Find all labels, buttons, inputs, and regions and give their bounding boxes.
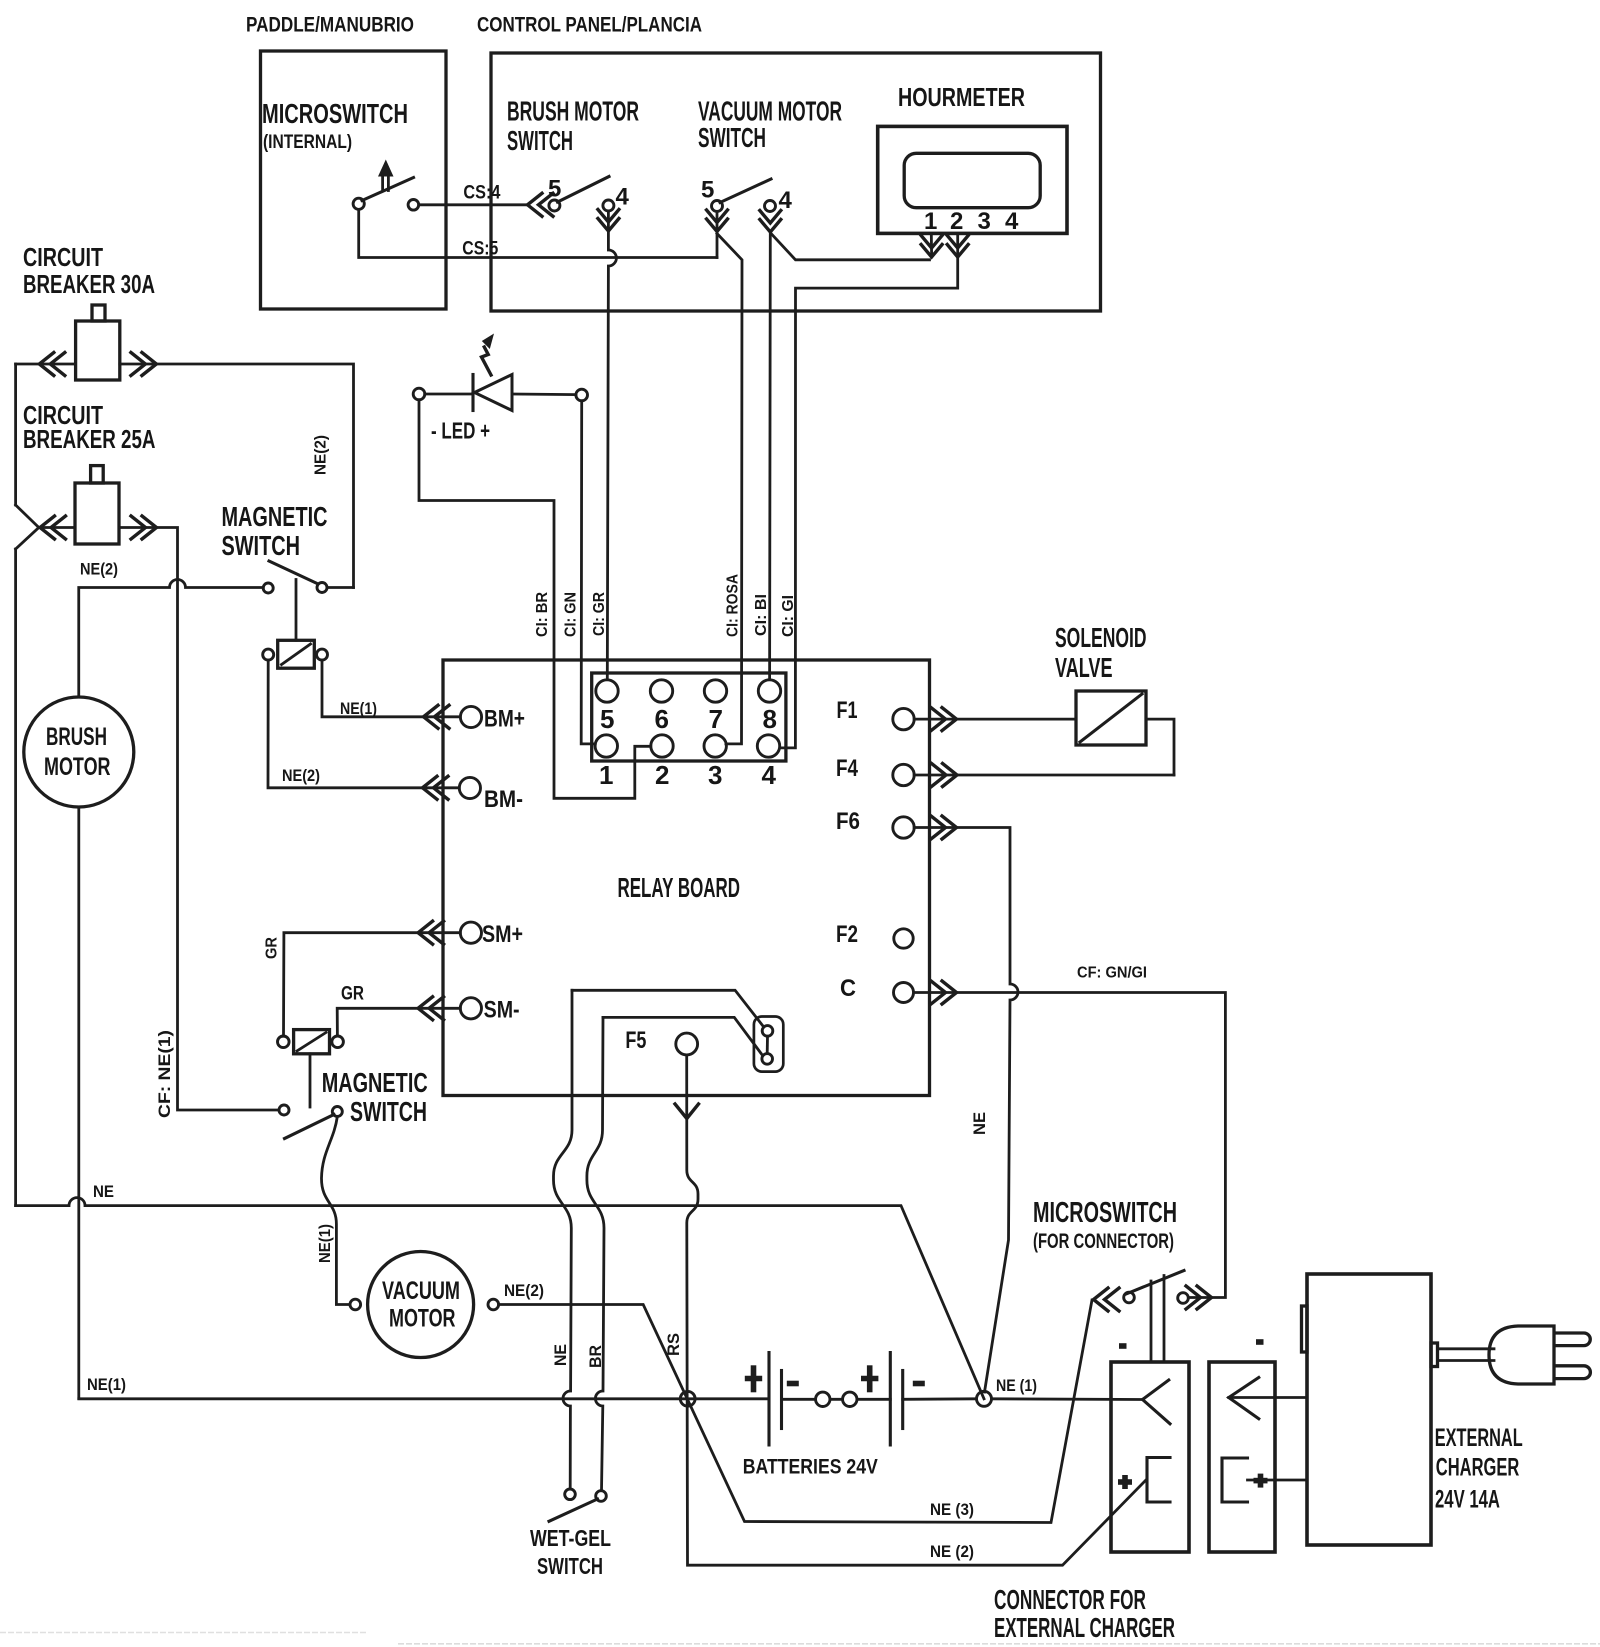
chevron on BM- wire bbox=[423, 776, 449, 799]
svg-text:VACUUM: VACUUM bbox=[382, 1277, 460, 1305]
svg-text:SWITCH: SWITCH bbox=[698, 122, 766, 153]
svg-text:BM-: BM- bbox=[484, 786, 523, 813]
connector P1 plus bracket bbox=[1118, 1458, 1170, 1503]
terminal F5 bbox=[625, 1027, 697, 1055]
svg-text:BRUSH MOTOR: BRUSH MOTOR bbox=[507, 96, 639, 127]
wire CS:5 (microswitch pivot to vacuum switch) bbox=[359, 209, 717, 257]
hourmeter pin 2 stub wire (to CI:GI) bbox=[780, 233, 958, 748]
wire BR (relay to wet-gel switch) bbox=[587, 1017, 604, 1490]
brush motor M1 bbox=[24, 697, 134, 807]
svg-text:NE(2): NE(2) bbox=[313, 435, 330, 475]
arrow on F5 wire bbox=[675, 1104, 699, 1119]
svg-text:MICROSWITCH: MICROSWITCH bbox=[262, 98, 408, 129]
microswitch S1 internal: actuator arrow bbox=[378, 160, 394, 191]
hourmeter display window bbox=[904, 153, 1040, 207]
charger cord outlet bbox=[1431, 1343, 1438, 1367]
label CI: GI bbox=[780, 595, 797, 637]
hourmeter box bbox=[878, 126, 1067, 233]
battery B2 positive plate bbox=[889, 1353, 892, 1446]
label NE(1) bottom left bbox=[87, 1376, 126, 1394]
svg-text:GR: GR bbox=[341, 984, 364, 1005]
svg-text:4: 4 bbox=[616, 184, 630, 211]
svg-text:SWITCH: SWITCH bbox=[537, 1553, 603, 1579]
svg-text:NE: NE bbox=[552, 1344, 570, 1366]
svg-text:MOTOR: MOTOR bbox=[44, 753, 111, 781]
label CIRCUIT BREAKER 25A bbox=[23, 400, 156, 454]
svg-text:1: 1 bbox=[599, 760, 613, 790]
label NE(2) below CB2 bbox=[80, 561, 118, 579]
chevron on C wire bbox=[931, 981, 957, 1004]
panel PADDLE/MANUBRIO box bbox=[261, 51, 447, 309]
panel CONTROL PANEL/PLANCIA box bbox=[491, 53, 1101, 311]
wire NE(1) from K2 to vacuum motor bbox=[321, 1117, 350, 1305]
label RELAY BOARD bbox=[618, 872, 741, 903]
svg-text:SWITCH: SWITCH bbox=[507, 125, 573, 156]
svg-text:MOTOR: MOTOR bbox=[389, 1305, 456, 1333]
svg-text:F2: F2 bbox=[836, 921, 858, 948]
chevron on F6 wire bbox=[931, 816, 957, 839]
svg-text:NE(1): NE(1) bbox=[317, 1224, 334, 1263]
label GR horizontal bbox=[341, 984, 364, 1005]
terminal BM+ bbox=[460, 706, 525, 733]
connector P2 box bbox=[1209, 1362, 1275, 1552]
terminal F1 bbox=[837, 697, 915, 730]
svg-text:8: 8 bbox=[763, 704, 777, 734]
LED D1 diode symbol bbox=[425, 375, 576, 411]
svg-text:BREAKER 25A: BREAKER 25A bbox=[23, 424, 156, 454]
wire CB1 left to vertical bbox=[16, 363, 76, 366]
battery B2 negative plate bbox=[901, 1371, 904, 1429]
LED D1 left terminal bbox=[413, 388, 425, 400]
mains plug lower prong bbox=[1554, 1366, 1590, 1379]
label BR by wet-gel wire bbox=[587, 1345, 605, 1368]
svg-text:- LED +: - LED + bbox=[431, 418, 490, 444]
charger cord bbox=[1438, 1349, 1495, 1361]
magnetic switch K1: left contact bbox=[263, 583, 273, 593]
wire K1 left contact to brush motor (with hop) bbox=[79, 580, 263, 698]
vacuum motor switch: contact 5 bbox=[701, 177, 723, 212]
label CI: BI bbox=[753, 594, 770, 636]
wire NE horizontal bbox=[16, 1198, 984, 1399]
svg-text:WET-GEL: WET-GEL bbox=[530, 1525, 611, 1551]
label NE(1) rotated bbox=[317, 1224, 334, 1263]
microswitch S2 blade bbox=[1126, 1271, 1184, 1295]
svg-text:4: 4 bbox=[1005, 208, 1019, 235]
battery B1 positive plate bbox=[767, 1353, 770, 1446]
svg-text:CI: GI: CI: GI bbox=[780, 595, 797, 637]
svg-text:3: 3 bbox=[978, 208, 991, 235]
wire GR (SM+ to coil K2) bbox=[284, 933, 461, 1036]
wire NE (relay to wet-gel switch) bbox=[554, 990, 573, 1489]
svg-text:HOURMETER: HOURMETER bbox=[898, 82, 1025, 112]
relay board inner trace to 2-pin connector bottom bbox=[603, 1017, 762, 1054]
label CI: ROSA bbox=[725, 574, 742, 637]
label NE (3) bbox=[930, 1501, 974, 1519]
wire K1 right contact to CB1 vertical bbox=[327, 586, 354, 589]
svg-text:MAGNETIC: MAGNETIC bbox=[322, 1067, 428, 1098]
svg-text:SOLENOID: SOLENOID bbox=[1055, 622, 1147, 653]
label MICROSWITCH (INTERNAL) bbox=[262, 98, 408, 153]
svg-text:2: 2 bbox=[655, 760, 669, 790]
label BATTERIES 24V bbox=[743, 1456, 878, 1479]
chevron on CB1 right wire bbox=[131, 353, 157, 376]
svg-text:F4: F4 bbox=[836, 755, 859, 782]
wire vacuum switch 5 stub to CS:5 bbox=[716, 212, 719, 258]
wire GR (SM- to coil K2) bbox=[337, 1008, 460, 1036]
svg-text:2: 2 bbox=[950, 208, 963, 235]
mains plug body bbox=[1489, 1326, 1554, 1384]
svg-text:NE (2): NE (2) bbox=[930, 1543, 974, 1561]
magnetic switch K2: right contact bbox=[332, 1107, 342, 1117]
label WET-GEL SWITCH bbox=[530, 1525, 611, 1579]
microswitch S1 internal: right contact bbox=[408, 200, 419, 211]
svg-text:BATTERIES 24V: BATTERIES 24V bbox=[743, 1456, 878, 1479]
label RS rotated bbox=[665, 1333, 683, 1356]
svg-text:SWITCH: SWITCH bbox=[222, 530, 301, 561]
solenoid valve Y1 bbox=[1076, 691, 1146, 745]
svg-text:CIRCUIT: CIRCUIT bbox=[23, 242, 103, 272]
label NE(2) bbox=[282, 767, 320, 785]
wire NE(1) battery line bbox=[79, 1397, 1142, 1400]
battery B1 negative plate bbox=[780, 1371, 783, 1429]
label MICROSWITCH (FOR CONNECTOR) bbox=[1033, 1197, 1177, 1253]
terminal SM- bbox=[460, 997, 519, 1024]
hourmeter pin numbers 1 2 3 4 bbox=[924, 208, 1019, 235]
label VACUUM MOTOR SWITCH bbox=[698, 96, 842, 154]
wire left NE vertical (CB1 down to NE line) bbox=[14, 364, 17, 1206]
wire CB2 right (CF:NE(1) down to lower magnetic switch) bbox=[119, 528, 279, 1111]
microswitch S2 actuator links bbox=[1151, 1276, 1164, 1363]
svg-text:CI: BR: CI: BR bbox=[534, 592, 551, 637]
chevron on hourmeter pin 1 bbox=[921, 236, 942, 258]
magnetic switch K1: coil right terminal bbox=[317, 649, 328, 660]
scan artifact bottom line bbox=[0, 1633, 1600, 1644]
brush motor switch: blade bbox=[558, 177, 610, 203]
microswitch S1 internal: blade bbox=[362, 178, 414, 201]
connector P1 box bbox=[1111, 1362, 1189, 1552]
terminal SM+ bbox=[460, 921, 523, 948]
svg-text:SM-: SM- bbox=[484, 997, 520, 1024]
svg-text:CONNECTOR FOR: CONNECTOR FOR bbox=[994, 1584, 1146, 1615]
svg-text:5: 5 bbox=[600, 704, 614, 734]
svg-text:1: 1 bbox=[924, 208, 937, 235]
svg-text:CI: BI: CI: BI bbox=[753, 594, 770, 636]
connector P1 socket arrow bbox=[1143, 1380, 1171, 1424]
magnetic switch K2: left contact bbox=[279, 1105, 289, 1115]
chevron on CB1 left wire bbox=[39, 353, 65, 376]
label MAGNETIC SWITCH upper bbox=[222, 501, 328, 561]
battery B1 minus sign bbox=[787, 1381, 799, 1387]
wire NE(2) from coil K1 to BM- bbox=[268, 660, 459, 788]
battery B1 plus sign bbox=[745, 1365, 762, 1392]
svg-text:4: 4 bbox=[762, 760, 777, 790]
label CF: NE(1) bbox=[156, 1030, 174, 1118]
svg-text:F1: F1 bbox=[837, 697, 858, 724]
svg-text:CONTROL PANEL/PLANCIA: CONTROL PANEL/PLANCIA bbox=[477, 14, 702, 37]
wire vacuum 4 to hourmeter pin 1 bbox=[771, 234, 930, 260]
battery B2 plus sign bbox=[861, 1365, 878, 1392]
brush motor switch: contact 5 bbox=[548, 176, 561, 212]
svg-text:RELAY BOARD: RELAY BOARD bbox=[618, 872, 741, 903]
chevron on CB2 right wire bbox=[131, 516, 157, 539]
label CI: BR bbox=[534, 592, 551, 637]
wire F6 NE down to battery node bbox=[914, 828, 1018, 1393]
label NE (1) bbox=[996, 1377, 1037, 1395]
label CI: GR bbox=[591, 592, 608, 636]
svg-text:BRUSH: BRUSH bbox=[46, 723, 107, 751]
2-pin connector on relay board bbox=[754, 1017, 783, 1072]
svg-text:6: 6 bbox=[655, 704, 669, 734]
svg-text:CI: GN: CI: GN bbox=[563, 592, 580, 637]
label NE (2) bottom bbox=[930, 1543, 974, 1561]
label NE by wet-gel wire bbox=[552, 1344, 570, 1366]
magnetic switch K2: coil right terminal bbox=[332, 1036, 344, 1048]
wire solenoid valve return to F4 bbox=[1146, 719, 1174, 775]
label NE(2) by vacuum motor bbox=[504, 1282, 544, 1300]
chevron on BM+ wire bbox=[424, 705, 450, 728]
svg-text:CF: GN/GI: CF: GN/GI bbox=[1077, 965, 1147, 982]
terminal BM- bbox=[459, 777, 523, 813]
terminal F4 bbox=[836, 755, 914, 786]
svg-text:7: 7 bbox=[709, 704, 723, 734]
magnetic switch K1: blade bbox=[269, 561, 316, 583]
svg-text:SM+: SM+ bbox=[482, 921, 523, 948]
connector P2 plus bracket bbox=[1222, 1458, 1268, 1502]
brush motor switch: contact 4 bbox=[603, 184, 630, 212]
hourmeter pin 1 stub wire bbox=[930, 233, 933, 254]
label BRUSH MOTOR SWITCH bbox=[507, 96, 639, 157]
svg-text:MICROSWITCH: MICROSWITCH bbox=[1033, 1197, 1177, 1229]
minus mark above connector P2 bbox=[1256, 1339, 1264, 1345]
microswitch S2 left contact bbox=[1124, 1292, 1135, 1303]
label NE bbox=[93, 1183, 114, 1201]
label EXTERNAL CHARGER 24V 14A bbox=[1435, 1424, 1523, 1514]
wire CS:4 (microswitch to brush switch) bbox=[419, 203, 527, 206]
svg-text:5: 5 bbox=[701, 177, 714, 204]
wire brush motor bottom to NE(1) line bbox=[77, 807, 80, 1399]
label CS:4 bbox=[463, 183, 500, 204]
wire NE(1) from coil K1 to BM+ bbox=[322, 660, 460, 717]
svg-text:NE(1): NE(1) bbox=[340, 700, 377, 718]
label NE(1) bbox=[340, 700, 377, 718]
label CONNECTOR FOR EXTERNAL CHARGER bbox=[994, 1584, 1175, 1643]
svg-text:CI: ROSA: CI: ROSA bbox=[725, 574, 742, 637]
svg-text:BM+: BM+ bbox=[484, 706, 525, 733]
label MAGNETIC SWITCH lower bbox=[322, 1067, 428, 1127]
mains plug upper prong bbox=[1554, 1333, 1590, 1346]
node NE (1) junction circle bbox=[977, 1391, 992, 1406]
svg-text:CS:4: CS:4 bbox=[463, 183, 500, 204]
chevron on CS:4 wire bbox=[528, 193, 554, 216]
label NE(2) vertical by CB1 wire bbox=[313, 435, 330, 475]
label NE by F6 wire bbox=[971, 1112, 989, 1135]
chevron below vacuum switch contact 5 bbox=[707, 210, 728, 232]
svg-text:24V 14A: 24V 14A bbox=[1435, 1486, 1500, 1514]
svg-text:(FOR CONNECTOR): (FOR CONNECTOR) bbox=[1033, 1230, 1174, 1253]
circuit breaker CB2 25A body bbox=[75, 466, 119, 544]
magnetic switch K2: coil left terminal bbox=[278, 1036, 290, 1048]
relay board box bbox=[443, 660, 930, 1096]
svg-text:CI: GR: CI: GR bbox=[591, 592, 608, 636]
label SOLENOID VALVE bbox=[1055, 622, 1147, 683]
wire CB1 right (NE(2) to magnetic switch) bbox=[120, 364, 354, 588]
svg-text:GR: GR bbox=[264, 937, 281, 959]
chevron on CB2 left wire bbox=[40, 516, 66, 539]
label CONTROL PANEL/PLANCIA bbox=[477, 14, 702, 37]
connector CN1 pin 1 bbox=[595, 735, 617, 790]
connector CN1 pin 4 bbox=[757, 735, 779, 790]
svg-text:NE(2): NE(2) bbox=[80, 561, 118, 579]
svg-text:EXTERNAL CHARGER: EXTERNAL CHARGER bbox=[994, 1612, 1175, 1643]
wire CI:BR (LED - to connector pin 2) bbox=[419, 400, 651, 799]
terminal F2 bbox=[836, 921, 913, 948]
svg-text:VALVE: VALVE bbox=[1055, 652, 1113, 683]
battery interconnect circles bbox=[816, 1392, 857, 1406]
svg-text:C: C bbox=[840, 975, 856, 1002]
wire F4 bbox=[914, 774, 1174, 777]
vacuum motor right terminal bbox=[488, 1299, 499, 1310]
magnetic switch K2: link bbox=[309, 1054, 312, 1107]
connector CN1 pin 3 bbox=[704, 735, 726, 790]
LED D1 right terminal bbox=[576, 389, 588, 401]
connector CN1 pin 7 bbox=[704, 680, 726, 734]
svg-text:CS:5: CS:5 bbox=[462, 239, 498, 260]
connector CN1 pin 8 bbox=[758, 680, 780, 734]
terminal C bbox=[840, 975, 914, 1003]
svg-text:5: 5 bbox=[548, 176, 561, 203]
magnetic switch K2: coil bbox=[294, 1030, 330, 1054]
label CI: GN bbox=[563, 592, 580, 637]
svg-text:SWITCH: SWITCH bbox=[350, 1096, 427, 1127]
wire NE(2)/RS from vacuum motor to NE(3) bbox=[499, 1300, 1092, 1523]
svg-text:NE(2): NE(2) bbox=[282, 767, 320, 785]
svg-text:NE (3): NE (3) bbox=[930, 1501, 974, 1519]
chevron right of microswitch S2 bbox=[1186, 1286, 1212, 1309]
chevron below brush switch contact 4 bbox=[598, 210, 619, 232]
wet-gel switch blade bbox=[549, 1499, 598, 1521]
chevron on SM+ wire bbox=[418, 921, 444, 944]
svg-text:MAGNETIC: MAGNETIC bbox=[222, 501, 328, 532]
terminal F6 bbox=[836, 808, 914, 838]
svg-text:F6: F6 bbox=[836, 808, 860, 835]
vacuum motor switch: blade bbox=[720, 179, 771, 203]
svg-text:NE: NE bbox=[971, 1112, 989, 1135]
vacuum motor switch: contact 4 bbox=[765, 187, 793, 214]
svg-text:BR: BR bbox=[587, 1345, 605, 1368]
magnetic switch K1: coil bbox=[278, 640, 315, 668]
wire CI:BI (vacuum 4 to connector pin 8) bbox=[768, 233, 772, 680]
svg-text:NE(2): NE(2) bbox=[504, 1282, 544, 1300]
svg-text:BREAKER 30A: BREAKER 30A bbox=[23, 269, 155, 299]
wire CB2 left with kink bbox=[16, 505, 75, 549]
microswitch S1 internal: pivot contact bbox=[353, 198, 364, 209]
chevron below vacuum switch contact 4 bbox=[760, 211, 781, 233]
magnetic switch K1: coil left terminal bbox=[263, 649, 274, 660]
svg-text:F5: F5 bbox=[625, 1027, 646, 1054]
wire C CF:GN/GI to microswitch bbox=[914, 993, 1225, 1298]
chevron on F1 wire bbox=[931, 708, 957, 731]
wire F5 down to NE(2) bottom line bbox=[687, 1055, 1146, 1565]
chevron on hourmeter pin 2 bbox=[947, 236, 968, 258]
label CS:5 bbox=[462, 239, 498, 260]
svg-text:NE (1): NE (1) bbox=[996, 1377, 1037, 1395]
label HOURMETER bbox=[898, 82, 1025, 112]
vacuum motor M2 bbox=[368, 1252, 474, 1358]
svg-text:EXTERNAL: EXTERNAL bbox=[1435, 1424, 1523, 1452]
magnetic switch K1: link to coil bbox=[295, 580, 298, 641]
svg-text:NE(1): NE(1) bbox=[87, 1376, 126, 1394]
minus mark above connector P1 bbox=[1119, 1343, 1127, 1349]
junction circle on battery line bbox=[680, 1391, 695, 1406]
svg-text:RS: RS bbox=[665, 1333, 683, 1356]
external charger left port bbox=[1302, 1306, 1308, 1352]
svg-text:CF: NE(1): CF: NE(1) bbox=[156, 1030, 174, 1118]
wire F1 to solenoid valve bbox=[914, 718, 1076, 721]
connector CN1 pin 6 bbox=[650, 680, 672, 734]
wire CI:ROSA (vacuum 5 to connector pin 3) bbox=[717, 234, 742, 744]
label GR rotated bbox=[264, 937, 281, 959]
wet-gel switch left contact bbox=[565, 1489, 576, 1500]
label - LED + bbox=[431, 418, 490, 444]
microswitch S2 right contact bbox=[1178, 1293, 1189, 1304]
label CF: GN/GI bbox=[1077, 965, 1147, 982]
wire CI:GN (LED + to connector pin 1) bbox=[581, 401, 595, 744]
magnetic switch K2: blade bbox=[285, 1115, 335, 1139]
wire P2 plus to external charger bbox=[1248, 1479, 1308, 1482]
chevron on SM- wire bbox=[418, 997, 444, 1020]
svg-text:3: 3 bbox=[708, 760, 722, 790]
external charger box bbox=[1307, 1274, 1431, 1545]
wire CI:GR (brush switch 4 down to connector pin 5) bbox=[607, 211, 616, 680]
connector CN1 8-pin box bbox=[592, 673, 786, 761]
wire P2 to external charger bbox=[1229, 1396, 1307, 1399]
vacuum motor left terminal bbox=[350, 1299, 361, 1310]
LED D1 light arrow bbox=[482, 334, 495, 377]
svg-text:CHARGER: CHARGER bbox=[1436, 1454, 1520, 1482]
label CIRCUIT BREAKER 30A bbox=[23, 242, 155, 299]
circuit breaker CB1 30A body bbox=[76, 305, 120, 380]
wet-gel switch right contact bbox=[596, 1491, 607, 1502]
svg-text:NE: NE bbox=[93, 1183, 114, 1201]
chevron on F4 wire bbox=[932, 764, 958, 787]
connector CN1 pin 5 bbox=[596, 680, 618, 734]
connector CN1 pin 2 bbox=[651, 735, 673, 790]
chevron left of microswitch S2 bbox=[1094, 1288, 1120, 1311]
battery B2 minus sign bbox=[913, 1381, 925, 1387]
svg-text:PADDLE/MANUBRIO: PADDLE/MANUBRIO bbox=[246, 14, 414, 37]
connector P2 socket arrow bbox=[1229, 1378, 1259, 1419]
svg-text:(INTERNAL): (INTERNAL) bbox=[263, 132, 352, 153]
label PADDLE/MANUBRIO bbox=[246, 14, 414, 37]
magnetic switch K1: right contact bbox=[317, 583, 327, 593]
relay board inner trace to 2-pin connector top bbox=[572, 990, 763, 1026]
